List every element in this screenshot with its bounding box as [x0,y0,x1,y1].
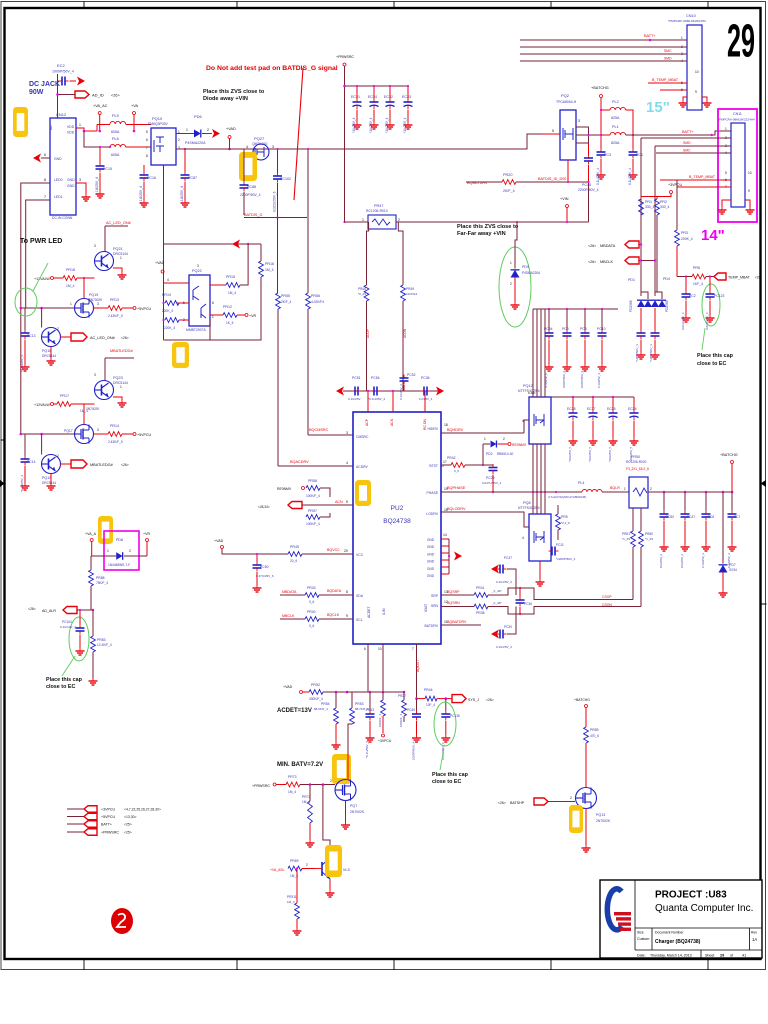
svg-text:PQ15: PQ15 [42,476,51,480]
svg-text:LODRV: LODRV [426,512,438,516]
mosfet PQ7 [330,754,365,814]
svg-text:MBCLK: MBCLK [282,614,295,618]
net label BQPHASE [441,486,582,493]
electrolytic cap EC28 [567,397,578,462]
svg-text:EC21: EC21 [351,95,360,99]
svg-text:4: 4 [346,461,348,465]
svg-text:330_4: 330_4 [660,205,670,209]
svg-text:10: 10 [378,647,382,651]
svg-text:QM3016D: QM3016D [252,142,268,146]
svg-text:_0_4/P: _0_4/P [491,601,502,605]
svg-text:29: 29 [720,954,724,958]
svg-text:4: 4 [681,59,683,63]
svg-text:CSOP: CSOP [602,595,612,599]
resistor PR40 [305,610,353,628]
svg-text:PC36: PC36 [421,376,430,380]
svg-text:3: 3 [97,302,99,306]
resistor PR88 v [89,556,109,610]
svg-text:1U/16V_4: 1U/16V_4 [419,397,433,401]
svg-text:Diode away +VIN: Diode away +VIN [203,96,248,102]
svg-text:Rev: Rev [751,931,757,935]
svg-text:+5VPCU: +5VPCU [101,815,115,819]
resistor PR49 v [401,285,418,301]
net label B_TEMP_MBAT cn10 [652,78,679,82]
svg-text:2200P/50V_4: 2200P/50V_4 [562,371,566,388]
svg-text:RE0NMV: RE0NMV [512,443,527,447]
svg-text:1M_4: 1M_4 [287,900,295,904]
resistor PR14 [94,424,152,444]
resistor PR311 v [287,867,302,935]
svg-text:+VA: +VA [131,104,138,108]
svg-text:PR55: PR55 [281,294,290,298]
quanta logo [607,889,631,931]
CN12 led0 wire [21,178,50,434]
svg-text:4.02K/F4: 4.02K/F4 [405,292,418,296]
mosfet PQ19 [70,293,103,318]
pq7 source gnd [341,801,350,830]
mosfet pair PQ10 [146,116,180,165]
svg-text:470_6: 470_6 [590,734,599,738]
svg-text:+VA_A: +VA_A [85,532,97,536]
svg-text:PC40: PC40 [407,708,415,712]
capacitor PC42 [649,330,660,363]
svg-text:*0.1U/25V_4: *0.1U/25V_4 [20,475,24,492]
svg-text:1K_5: 1K_5 [226,321,234,325]
green ellipse PC123 [702,284,720,326]
power flag +3VPCU acdet [378,734,392,743]
net flag MBCLK [588,257,656,264]
pu2 gnd bracket [441,539,462,574]
capacitor PC26 [516,588,533,614]
svg-text:<26>: <26> [588,244,596,248]
svg-text:1M_4: 1M_4 [288,790,296,794]
power flag +VAD pq22 [155,261,189,283]
svg-text:Place this ZVS close to: Place this ZVS close to [203,89,265,95]
svg-text:MBATLEDG#: MBATLEDG# [90,463,114,467]
svg-text:<25>: <25> [124,831,132,835]
svg-text:8: 8 [346,590,348,594]
svg-text:220K_4: 220K_4 [164,326,175,330]
resistor PR19 [162,293,189,313]
svg-text:0.1U/25V_4: 0.1U/25V_4 [180,186,184,204]
power flag +BATCHG pq13 [574,698,590,727]
resistor PR12 [210,305,256,325]
capacitor PC88 [240,149,261,215]
note place cap ec mid [432,748,469,785]
svg-text:VCC: VCC [356,553,364,557]
svg-text:<26>: <26> [111,94,120,98]
svg-text:PR12: PR12 [223,305,232,309]
svg-text:BQHDRV: BQHDRV [447,428,464,432]
svg-text:8: 8 [146,154,148,158]
note place cap ec left [46,656,83,690]
net flag ACN [258,500,353,509]
resistor PR58 [277,479,330,498]
yellow highlight box pc88 [239,152,257,181]
net flag MBATLEDG#2 [71,460,129,468]
pq13 source gnd [582,809,591,853]
resistor PR2 [655,199,670,292]
svg-text:0.01U/25V_4: 0.01U/25V_4 [681,312,685,330]
svg-text:1000P/50V_4: 1000P/50V_4 [52,70,74,74]
transistor PQ14 npn [315,858,351,879]
net label BQHDRV [441,428,524,433]
capacitor PC1 [628,135,643,185]
resistor PR41 [474,586,633,600]
mosfet PQ13 [576,788,611,824]
net label BATDIS_ID_D00 [516,177,589,182]
svg-text:TEMP_MBAT: TEMP_MBAT [728,276,751,280]
svg-text:*100P/50V_4: *100P/50V_4 [649,344,653,362]
svg-text:+BATCHG: +BATCHG [720,453,738,457]
svg-text:PQ19: PQ19 [89,293,98,297]
resistor PR5 v [556,505,570,540]
capacitor PC16 [139,165,156,207]
pq8 top bundle [533,492,545,514]
svg-text:PR45: PR45 [290,545,299,549]
resistor PR18 [63,268,95,299]
note min batv [277,762,323,768]
svg-text:10: 10 [748,171,752,175]
svg-text:IOUT: IOUT [424,604,428,612]
svg-text:3: 3 [79,178,81,182]
dual diode PD4 [651,277,670,330]
svg-text:PL4: PL4 [578,481,584,485]
svg-text:+PRWSRC: +PRWSRC [101,831,119,835]
svg-text:+PRWSRC: +PRWSRC [252,784,270,788]
wire vad branch [164,240,262,249]
svg-text:1KF_4: 1KF_4 [693,282,703,286]
svg-text:EC24: EC24 [368,95,377,99]
svg-text:2200P/50V_4: 2200P/50V_4 [578,188,599,192]
svg-text:0.1U/25V_4: 0.1U/25V_4 [701,553,705,568]
green ellipse PC136 [434,702,456,746]
electrolytic cap EC25 [607,397,618,462]
svg-text:PC52: PC52 [407,373,416,377]
pq15 emitter gnd [47,474,56,491]
svg-text:+PRWSRC: +PRWSRC [336,55,354,59]
svg-text:3: 3 [578,119,580,123]
svg-text:_0_4/P: _0_4/P [491,589,502,593]
svg-text:PR27: PR27 [398,694,406,698]
svg-text:BQBATDRV: BQBATDRV [447,620,467,624]
svg-text:825A: 825A [611,141,620,145]
svg-text:1: 1 [484,437,486,441]
svg-text:2: 2 [207,128,209,132]
svg-text:10U/25V_6: 10U/25V_6 [680,554,684,568]
svg-text:BQLODRV: BQLODRV [447,507,466,511]
svg-text:Place this cap: Place this cap [46,677,83,683]
magenta highlight box pd8 [104,531,139,570]
svg-text:PC36: PC36 [524,602,532,606]
vcc cluster +VAD flag [214,539,288,554]
mosfet PQ27 [246,136,274,160]
yellow highlight box pq13 [569,805,583,833]
yellow highlight box pq22 [172,342,189,368]
svg-text:Sheet: Sheet [705,954,714,958]
svg-text:2: 2 [178,138,180,142]
svg-text:5: 5 [146,130,148,134]
svg-text:<28,34>: <28,34> [258,505,270,509]
dual diode PD1 [628,278,652,330]
svg-text:PC102: PC102 [280,177,291,181]
svg-text:PC48: PC48 [582,183,591,187]
svg-text:PL1: PL1 [612,125,619,129]
svg-text:2: 2 [398,218,400,222]
capacitor PC14 [20,434,36,492]
capacitor PC52 [399,373,416,400]
svg-text:2: 2 [681,45,683,49]
svg-text:3: 3 [346,431,348,435]
svg-text:+BATCHG: +BATCHG [591,86,609,90]
svg-text:Place this cap: Place this cap [432,772,469,778]
svg-text:PR3: PR3 [681,231,688,235]
resistor PR56 v [306,148,325,435]
svg-text:PR311: PR311 [287,895,297,899]
inductor PL1 [601,125,731,145]
power flag +BATCHG pq2 [591,86,609,149]
svg-text:DC-IN CONN: DC-IN CONN [52,216,73,220]
pu2 top caps wire [336,387,444,396]
svg-text:TPCA8064-H: TPCA8064-H [556,100,577,104]
svg-text:+VAD: +VAD [226,127,236,131]
svg-text:0.1U/25V_4: 0.1U/25V_4 [496,580,512,584]
svg-text:PR88: PR88 [96,576,105,580]
svg-text:SX34: SX34 [729,568,737,572]
svg-text:SCL: SCL [356,618,363,622]
svg-text:220K_4: 220K_4 [162,309,173,313]
electrolytic cap EC22 [384,85,395,133]
net label BATDIS_G [244,213,307,218]
svg-text:SYS_J: SYS_J [468,698,479,702]
svg-text:0.1U/25V_4: 0.1U/25V_4 [399,384,403,400]
resistor PR6 [677,266,714,286]
svg-text:BTST: BTST [429,464,438,468]
resistor PR13 [94,298,152,318]
resistor PR60 v [639,531,654,607]
net flag AD_ALR [28,607,94,614]
svg-text:0.022U/50V_6: 0.022U/50V_6 [273,191,277,212]
capacitor PC29 [482,464,502,493]
title doc number [655,931,701,946]
svg-text:+VA_ASL: +VA_ASL [270,868,285,872]
svg-text:8: 8 [44,178,46,182]
svg-text:9: 9 [748,189,750,193]
resistor PR57 [306,509,330,526]
svg-text:ACN: ACN [335,500,343,504]
capacitor PC2r [681,277,696,331]
svg-text:To PWR LED: To PWR LED [20,238,62,245]
pq8 ground [536,561,545,586]
svg-text:75K/F_4: 75K/F_4 [96,581,108,585]
gate rail y435 [20,433,75,436]
svg-text:7: 7 [44,195,46,199]
pq14 wires [326,879,335,897]
svg-text:MIN. BATV=7.2V: MIN. BATV=7.2V [277,762,323,768]
svg-text:<26>: <26> [121,463,129,467]
capacitor PC50 [659,492,674,568]
text 14 inch [701,227,725,244]
svg-text:PR58: PR58 [308,479,317,483]
svg-text:PC13: PC13 [27,334,36,338]
svg-text:PQ7: PQ7 [350,804,357,808]
svg-text:ACDET=13V: ACDET=13V [277,708,312,714]
svg-text:PD9: PD9 [522,265,529,269]
svg-text:PC87: PC87 [188,176,197,180]
svg-text:BATT+: BATT+ [682,130,694,134]
pq18 emitter gnd [47,347,56,366]
svg-text:1: 1 [107,549,109,553]
capacitor PC3 [596,149,611,186]
svg-text:AC_LED_ON#: AC_LED_ON# [90,336,116,340]
svg-text:PR51: PR51 [622,532,630,536]
net label MBATLEDG# [105,349,134,380]
svg-text:PC37: PC37 [504,556,512,560]
svg-text:EC22: EC22 [384,95,393,99]
svg-text:LED1: LED1 [54,195,63,199]
power flag +VA_AC [93,104,108,132]
cn10 grounds [679,70,712,107]
electrolytic cap EC23 [402,85,413,133]
svg-text:*1U/25V_4: *1U/25V_4 [352,117,356,133]
svg-text:*PMPCRF-08ML8K2Z24H2: *PMPCRF-08ML8K2Z24H2 [668,19,706,23]
svg-text:+VAD: +VAD [214,539,224,543]
svg-text:<26>: <26> [486,698,494,702]
svg-text:of: of [730,954,733,958]
svg-text:PC14: PC14 [27,460,36,464]
resistor PR28 v [378,692,385,733]
svg-text:+VR: +VR [143,532,150,536]
power flag +12VALW pr17 [34,403,57,408]
svg-text:PR47: PR47 [374,204,384,208]
svg-text:0.1U/25V_4: 0.1U/25V_4 [596,168,600,185]
diode PD9 zener [510,240,541,309]
svg-text:PMPCRA-08ML8K2Z24H4: PMPCRA-08ML8K2Z24H4 [719,118,755,122]
svg-text:BATT+: BATT+ [101,823,112,827]
svg-text:0.1U/25V: 0.1U/25V [348,397,361,401]
mosfet PQ17 [64,404,99,444]
svg-text:6: 6 [44,153,46,157]
svg-text:Far-Far away +VIN: Far-Far away +VIN [457,231,506,237]
svg-text:PC2: PC2 [689,294,696,298]
net label SMD cn11 [683,141,691,145]
green ellipse PC104 [69,617,89,661]
pu2 acp acn pins up [367,390,425,412]
power flag +VAD top [226,127,236,150]
svg-text:Do Not add test pad on BATDIS_: Do Not add test pad on BATDIS_G signal [206,65,338,72]
svg-text:PC9: PC9 [562,327,569,331]
svg-text:RB551V-40: RB551V-40 [497,452,514,456]
capacitor PC9 [562,309,572,388]
svg-text:PQ12: PQ12 [523,384,533,388]
svg-text:*100P/50V_4: *100P/50V_4 [635,344,639,362]
power flag +VA [131,104,138,132]
svg-text:PL6: PL6 [112,137,119,141]
CN12 pin1 wire [76,123,97,132]
resistor PR48 v [358,285,369,301]
svg-text:close to EC: close to EC [46,684,75,690]
svg-text:DRC5144: DRC5144 [42,481,56,485]
svg-text:PL2: PL2 [612,100,619,104]
svg-text:2N7002K: 2N7002K [596,819,611,823]
resistor PR50 box [626,455,652,508]
smd smc verticals [641,138,660,296]
net label SMC cn11 [683,149,691,153]
title block grid lines [635,880,762,958]
yellow highlight box pd8 [98,516,113,544]
svg-text:330_4: 330_4 [645,205,655,209]
svg-text:ACDRV: ACDRV [356,465,369,469]
pu2 pin numbers [344,423,448,624]
capacitor PC8 [580,309,590,388]
svg-text:PR5: PR5 [561,515,568,519]
capacitor PC11 [549,543,576,561]
svg-text:VDD: VDD [67,131,75,135]
svg-text:6: 6 [364,647,366,651]
svg-text:*0.1U/25V_4: *0.1U/25V_4 [368,397,385,401]
svg-text:BATSHP: BATSHP [510,801,525,805]
svg-text:0_6: 0_6 [309,624,315,628]
svg-text:CN12: CN12 [56,112,67,117]
svg-text:*1U/25V_4: *1U/25V_4 [403,117,407,133]
svg-text:1M_4: 1M_4 [66,284,75,288]
svg-text:EM6Q3P03V: EM6Q3P03V [148,122,169,126]
power flag +VIN [560,182,589,223]
svg-text:Quanta Computer Inc.: Quanta Computer Inc. [655,903,753,914]
svg-text:430K/F_4: 430K/F_4 [309,697,323,701]
svg-text:90W: 90W [29,89,44,96]
yellow highlight box pq14 [325,845,342,877]
svg-text:3: 3 [94,244,96,248]
capacitor PC54 [368,376,385,401]
CN12 gnd pin6 arrow [33,153,50,163]
svg-text:3: 3 [272,145,274,149]
svg-text:2: 2 [650,487,652,491]
svg-text:20: 20 [344,549,348,553]
svg-text:Place this ZVS close to: Place this ZVS close to [457,224,519,230]
net flag AC_LED_ON# [71,333,129,341]
svg-text:14": 14" [701,227,725,244]
svg-text:AD_ID: AD_ID [92,93,104,98]
svg-text:*0.1U/25V_4: *0.1U/25V_4 [20,355,24,372]
svg-text:+VA_AC: +VA_AC [93,104,108,108]
svg-text:14: 14 [443,533,447,537]
svg-text:GND: GND [427,567,435,571]
svg-text:2: 2 [57,454,59,458]
main rail to PQ2 [176,134,542,149]
electrolytic cap EC24 [368,85,379,133]
capacitor PC13 [20,308,36,372]
pu2 gnd pin names [427,533,447,578]
capacitor PC36 [419,376,433,401]
svg-text:0.1U/25V_4: 0.1U/25V_4 [628,168,632,185]
note place zvs diode [203,89,265,102]
svg-text:0.1U/10V_4: 0.1U/10V_4 [60,625,76,629]
svg-text:PD2568: PD2568 [665,300,669,312]
svg-text:BATT+: BATT+ [644,34,656,38]
inductor PL4 [548,481,629,499]
transistor pair PQ22 [183,264,214,332]
svg-text:ACOP: ACOP [366,329,370,338]
title rev [751,931,757,943]
yellow highlight box pq7 [332,754,351,784]
svg-text:PR48: PR48 [358,287,366,291]
svg-text:MBATLEDG#: MBATLEDG# [110,349,134,353]
svg-text:PR14: PR14 [110,424,119,428]
svg-text:PC16: PC16 [147,176,156,180]
inductor PL5 [97,114,151,134]
svg-text:<26>: <26> [28,607,36,611]
